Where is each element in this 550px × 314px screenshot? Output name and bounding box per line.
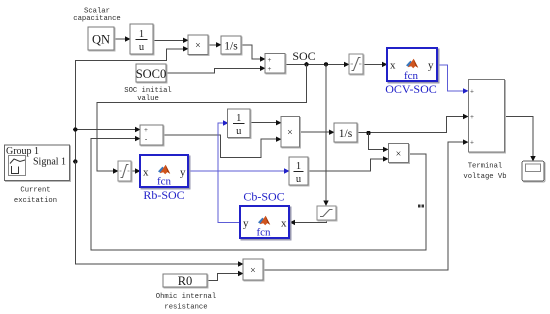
block saturation3 (317, 206, 337, 221)
annotation equals mark (418, 204, 424, 207)
wire OCV-SOC y to terminal sum in1 (blue) (437, 65, 469, 94)
wire saturation3 to Cb-SOC x (290, 220, 327, 225)
wire 1/u2 to product2 in1 (250, 120, 282, 125)
block OCV-SOC fcn (387, 48, 439, 83)
svg-text:y: y (428, 60, 434, 72)
wire integrator2 out to terminal sum in2 (357, 114, 469, 133)
node dot source output (73, 159, 77, 163)
svg-text:excitation: excitation (14, 197, 57, 205)
block QN (88, 27, 115, 51)
svg-text:+: + (470, 113, 474, 121)
svg-text:QN: QN (92, 33, 110, 47)
svg-text:1/s: 1/s (339, 128, 353, 140)
svg-text:Ohmic internal: Ohmic internal (156, 293, 216, 301)
wire source down to product4 in1 (75, 162, 243, 267)
svg-text:u: u (139, 42, 145, 53)
block sum1 (265, 54, 286, 75)
svg-text:SOC0: SOC0 (136, 67, 167, 81)
label Ohmic internal resistance (156, 293, 216, 311)
svg-text:Cb-SOC: Cb-SOC (243, 190, 284, 204)
svg-text:1/s: 1/s (224, 41, 238, 53)
svg-text:y: y (180, 167, 186, 179)
wire current source up to product1 in2 (75, 46, 188, 161)
label OCV-SOC (385, 82, 437, 96)
node dot SOC branch A (304, 62, 308, 66)
svg-text:×: × (250, 266, 256, 277)
block Rb-SOC fcn (140, 155, 190, 189)
wire SOC line sum1 to saturation2 (285, 62, 350, 67)
wire saturation1 to Rb-SOC x (131, 168, 141, 173)
svg-text:Signal 1: Signal 1 (33, 157, 66, 168)
wire saturation2 to OCV-SOC x (363, 62, 388, 67)
block divide 1/u2 (228, 109, 252, 139)
svg-text:Rb-SOC: Rb-SOC (143, 188, 184, 202)
svg-text:×: × (195, 41, 201, 52)
wire feedback to subtract minus (91, 136, 426, 250)
svg-text:value: value (137, 95, 159, 103)
block divide 1/u3 (289, 157, 309, 186)
svg-text:x: x (143, 167, 149, 179)
block scope (522, 161, 545, 182)
svg-text:u: u (296, 174, 302, 185)
wire integrator1 to sum1 in1 (241, 45, 266, 62)
svg-text:resistance: resistance (164, 303, 207, 311)
wire QN to 1/u (114, 36, 131, 41)
label Rb-SOC (143, 188, 184, 202)
label Current excitation (14, 187, 57, 206)
label Scalar capacitance (73, 8, 120, 23)
svg-text:SOC: SOC (292, 49, 315, 63)
node dot integrator2 out (366, 131, 370, 135)
wire Cb-SOC y up to divide 1/u2 (blue) (218, 120, 240, 222)
wire terminal sum to scope (505, 117, 536, 162)
svg-text:x: x (390, 60, 396, 72)
block saturation1 (118, 161, 132, 182)
wire Rb-SOC y to 1/u3 (blue) (188, 168, 290, 173)
block product2 (281, 117, 301, 149)
svg-text:OCV-SOC: OCV-SOC (385, 82, 437, 96)
node dot source upper branch (73, 127, 77, 131)
svg-text:voltage Vb: voltage Vb (463, 173, 506, 181)
block current source Group1 Signal1 (5, 145, 71, 182)
block R0 (163, 274, 208, 288)
svg-text:1: 1 (296, 161, 301, 172)
wire product2 to integrator2 (300, 130, 335, 135)
wire 1/u to product1 in1 (153, 38, 189, 43)
svg-text:SOC initial: SOC initial (124, 87, 171, 95)
svg-text:u: u (236, 126, 242, 137)
block product3 (389, 144, 410, 164)
wire subtract out to product2 in2 (163, 135, 282, 157)
label SOC net (292, 49, 315, 63)
block subtract (140, 125, 164, 146)
svg-text:×: × (287, 127, 293, 138)
block product4 (243, 259, 264, 281)
wire 1/u3 out to product3 in2 (308, 156, 389, 171)
svg-text:+: + (268, 65, 272, 73)
svg-text:+: + (470, 87, 474, 95)
svg-text:+: + (470, 139, 474, 147)
label Terminal voltage Vb (463, 163, 506, 182)
svg-text:+: + (144, 126, 148, 134)
wire SOC feedback down-left to saturation1 (97, 64, 307, 173)
svg-text:fcn: fcn (256, 227, 271, 239)
block SOC0 (136, 64, 167, 83)
node dot SOC branch B (324, 62, 328, 66)
block terminal sum (469, 80, 506, 154)
svg-text:R0: R0 (178, 274, 193, 288)
block Cb-SOC fcn (240, 206, 291, 240)
svg-text:capacitance: capacitance (73, 15, 120, 23)
svg-text:Current: Current (20, 187, 50, 195)
wire SOC0 to sum1 in2 (166, 66, 266, 73)
block product1 (188, 35, 209, 56)
wire source branch to subtract plus (75, 127, 140, 132)
svg-text:y: y (243, 218, 249, 230)
svg-text:+: + (268, 56, 272, 64)
label Cb-SOC (243, 190, 284, 204)
svg-text:×: × (396, 149, 402, 160)
svg-text:x: x (281, 218, 287, 230)
label SOC initial value (124, 87, 171, 103)
wire product4 out to terminal sum in3 (263, 139, 469, 269)
wire SOC down to saturation3 (323, 64, 328, 206)
wire node to product3 in1 (369, 133, 389, 152)
svg-text:1: 1 (236, 113, 241, 124)
block saturation2 (349, 54, 364, 75)
svg-text:1: 1 (139, 29, 144, 40)
wire product1 to integrator1 (208, 42, 222, 47)
block integrator2 (334, 123, 358, 143)
block 1/u divide1 (130, 24, 154, 55)
svg-text:fcn: fcn (157, 176, 172, 188)
wire R0 to product4 in2 (207, 271, 244, 281)
block integrator1 (221, 36, 242, 55)
svg-text:fcn: fcn (404, 70, 419, 82)
svg-text:Terminal: Terminal (468, 163, 503, 171)
